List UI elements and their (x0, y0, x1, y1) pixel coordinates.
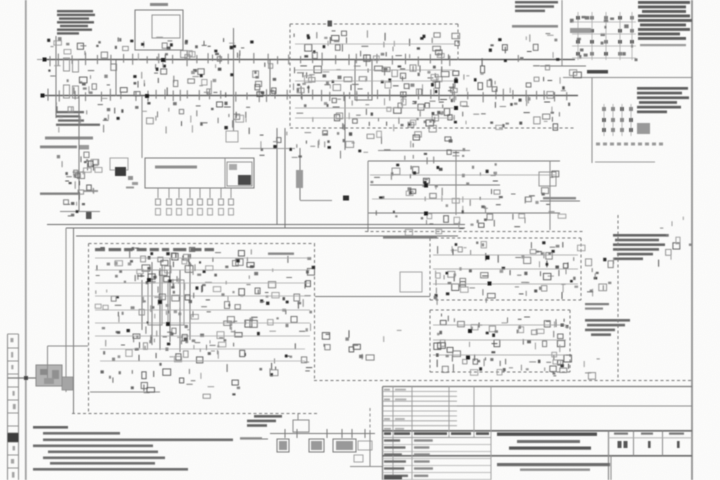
wire loop 3 horizontal (76, 235, 458, 237)
wire stub y148 (240, 148, 295, 150)
relay contact group mid-right (595, 104, 663, 162)
connector cluster plug X1 (36, 365, 62, 386)
wire bus A lead-in (37, 59, 44, 61)
component cluster below bus B (56, 98, 250, 134)
section boundary y161 (368, 160, 560, 162)
component cluster right of E3 (586, 258, 614, 297)
component cluster inside E2 top (97, 247, 254, 273)
wire chain bottom (350, 466, 382, 468)
label above U1 (150, 3, 168, 6)
component on chain upper (293, 414, 309, 432)
component module A1 right cell (227, 162, 252, 186)
wire external horizontal (8, 377, 62, 379)
label inside E2 top-right (268, 253, 294, 255)
component cluster left stage lower (64, 200, 92, 219)
wire mid vertical x368 (367, 161, 369, 232)
wire chain drop dashed (369, 408, 371, 434)
title block signature labels (384, 439, 433, 479)
component cluster inside E2 bottom (101, 340, 313, 383)
component cluster mid-right sparse (511, 171, 566, 227)
component cluster inside E1 lower (297, 98, 457, 132)
label right mid small (585, 303, 609, 310)
component cluster inside E1 mid (294, 65, 459, 100)
wire loop 1 vertical (73, 228, 75, 413)
wire bottom of E2 (90, 391, 160, 393)
component cluster inside E2 core (95, 270, 263, 347)
component cluster below E1 (260, 131, 466, 165)
chain component leads (285, 429, 365, 438)
label chain feed (240, 437, 262, 439)
wire drop x79 (78, 96, 80, 212)
title block grid (383, 387, 693, 480)
dashed enclosure E4 (430, 310, 570, 372)
wire bus B component leads (48, 89, 567, 103)
component pair near bus start (64, 58, 79, 98)
terminal comb under module A1 (156, 188, 234, 215)
component cluster inside E3 (434, 241, 585, 305)
notes paragraph bottom-left (33, 426, 233, 471)
wire rows inside E1 and mid (295, 44, 555, 199)
component cluster upper-left stage (47, 37, 253, 62)
dashed partition y380 (314, 380, 692, 382)
wire loop 3 vertical (88, 244, 90, 414)
component cluster far right mid (659, 217, 692, 267)
wire riser x142 (141, 96, 143, 158)
wire loop 1 horizontal (47, 224, 465, 226)
title block header row text (384, 432, 489, 435)
partition line top-right vertical (561, 0, 563, 66)
label top-center block (512, 1, 558, 28)
note text block left-middle (56, 111, 100, 126)
legend text block right lower (585, 319, 630, 336)
wire rows inside E3 E4 (433, 255, 578, 355)
component cluster inside E1 upper (294, 30, 460, 61)
component valve V4 (358, 441, 372, 450)
relay contact group top-right (570, 12, 638, 61)
component cluster right of E4 (546, 352, 600, 379)
component box mid-right (539, 172, 556, 186)
partition line right box vertical (591, 78, 593, 164)
label above wire y201 (543, 197, 576, 199)
component cluster E2 core dense (140, 264, 196, 349)
component tall box inside E1 (355, 60, 372, 100)
junction on E1 top edge (328, 21, 333, 27)
section boundary y150 (378, 150, 470, 152)
junction external on frame (24, 376, 28, 380)
label block chain left (247, 415, 282, 427)
wire drop x300 (296, 148, 303, 200)
component cluster top mid-right (482, 34, 559, 67)
component cluster left small stage (57, 152, 102, 200)
wire chain horizontal (270, 433, 375, 435)
wire from connector up (47, 346, 49, 378)
dashed enclosure E3 (430, 238, 581, 300)
partition line right horizontal y77 (563, 77, 692, 79)
wire riser x270 (269, 60, 271, 96)
wire loop 2 vertical (65, 228, 67, 392)
legend text block right upper (637, 87, 689, 113)
component cluster right of E1 (461, 65, 582, 130)
title block designation text (497, 433, 597, 450)
dashed enclosure E2 bottom (72, 413, 317, 415)
component box x229 (226, 131, 238, 142)
component box near E3 left (400, 272, 422, 292)
component cluster inside E4 (434, 314, 572, 376)
legend text block top-right (638, 1, 692, 46)
legend text block right middle (613, 234, 667, 260)
wire into E3 (315, 296, 430, 298)
component cluster mid-right stage (371, 163, 503, 235)
title block company text (497, 463, 610, 471)
left margin stamp table (8, 334, 19, 480)
component small under chain (354, 455, 363, 462)
wire bus A component leads (50, 53, 450, 67)
junction dots dark (41, 58, 492, 360)
title block lit cells text (614, 433, 684, 449)
partition line top-right horizontal (540, 65, 586, 67)
dark label bar top-right (587, 70, 608, 74)
wire drop x277 (276, 128, 278, 224)
component box U1 inner (152, 15, 180, 38)
wire to enclosure E2 (48, 345, 89, 347)
wire bus A horizontal (44, 59, 575, 61)
drawing frame right border (691, 0, 693, 480)
wire labelled y201 (540, 200, 580, 202)
connector aux parts (62, 377, 73, 390)
wire mid horizontal y213 (368, 212, 560, 214)
wire stub left cluster (60, 211, 100, 213)
label row inside E2 top (95, 248, 214, 251)
junction dark mid (343, 196, 349, 201)
component cluster below E2 (131, 380, 240, 398)
drawing frame left border (25, 0, 27, 480)
wire bus B horizontal (42, 95, 578, 97)
component valve V1 (277, 439, 289, 452)
wire riser x345 (344, 96, 346, 150)
wire rows inside E2 (95, 258, 310, 361)
component valve V2 (309, 439, 324, 452)
label net name left (40, 137, 93, 150)
label net name left lower (40, 190, 98, 195)
component dark square left (115, 167, 138, 189)
dashed enclosure E1 (290, 24, 575, 128)
wire loop 2 horizontal (66, 227, 465, 229)
dashed partition x618 (617, 215, 619, 380)
wire stub y200 (300, 200, 332, 202)
wire mid vertical x550 (549, 161, 551, 230)
component module A1 box (145, 158, 254, 188)
wire bus A left stub (55, 36, 57, 118)
dashed enclosure E2 right (314, 244, 316, 381)
component valve V3 (333, 439, 356, 452)
wire chain drop (369, 434, 371, 466)
wire mid vertical x456 (455, 150, 457, 215)
wire drop x285 (284, 128, 286, 228)
component small box left stage (110, 158, 128, 170)
label from-sensors (383, 236, 437, 239)
wire riser x233 (233, 28, 235, 131)
component cluster inside E2 right (257, 256, 315, 335)
title block revision rows text (384, 389, 406, 430)
note text block top-left (57, 10, 95, 35)
wire riser x116 (115, 60, 117, 96)
component spine tall elements E2 (142, 258, 190, 352)
dashed partition y231 (365, 231, 583, 233)
wire chain feed (240, 438, 268, 440)
component box U1 outline (135, 10, 183, 50)
component cluster between buses (48, 62, 276, 97)
component cluster between E2 E3 (322, 330, 401, 360)
dashed enclosure E2 top (89, 243, 316, 245)
label inside module A1 (155, 166, 197, 169)
component cluster E1 right dense (412, 65, 457, 122)
wire mid horizontal y185 (370, 184, 500, 186)
